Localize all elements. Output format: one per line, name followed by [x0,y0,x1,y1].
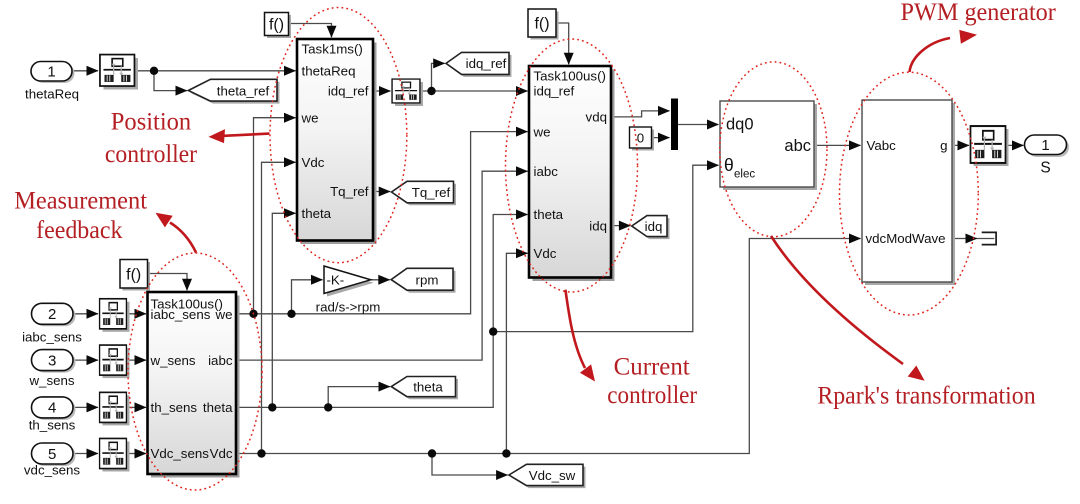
gain -K- rad/s to rpm [316,266,381,315]
RED ANNOTATIONS [128,8,978,491]
svg-text:2: 2 [48,306,56,323]
wire PWM g to RT3 [952,144,969,146]
wire RT2 to current controller idq_ref [420,90,528,92]
svg-text:idq_ref: idq_ref [534,84,575,99]
svg-text:rpm: rpm [416,272,439,287]
wire branch to theta_ref tag [154,71,187,91]
arrow to pwm generator text [910,38,951,72]
svg-text:theta: theta [413,379,443,394]
svg-text:w_sens: w_sens [150,353,196,368]
wire Vdc to Task1ms Vdc [262,162,296,453]
wire port4 to RT6 [73,406,98,408]
svg-text:-K-: -K- [327,273,345,288]
wire we to Task1ms we [254,118,296,314]
wire iabc feedback to current controller [236,171,528,360]
wire we feedback to current controller [236,132,528,314]
ellipse position controller [270,8,407,263]
svg-text:we: we [301,110,319,125]
arrow to rpark transformation text [771,236,903,364]
constant 0 [630,127,655,151]
wire theta feedback to current controller [236,215,528,408]
svg-text:idq_ref: idq_ref [328,84,369,99]
svg-text:we: we [215,307,233,322]
ellipse measurement feedback [128,253,262,490]
inport 1 thetaReq [25,62,79,102]
wire RT6 to measurement th_sens [127,406,147,408]
function-call subsystem Task1ms (position controller) [297,39,377,244]
wire RT4 to measurement iabc_sens [127,313,147,315]
svg-text:iabc_sens: iabc_sens [151,307,211,322]
svg-text:theta: theta [534,207,564,222]
wire current controller idq to tag [611,225,630,227]
svg-text:Vabc: Vabc [867,138,897,153]
goto tag idq [632,216,670,240]
goto tag theta [391,377,458,400]
svg-text:3: 3 [48,352,56,369]
wire gain to rpm tag [371,279,390,281]
svg-text:f(): f() [269,17,284,34]
svg-text:Tq_ref: Tq_ref [330,184,369,199]
wire port1 to RT1 [73,70,99,72]
svg-text:abc: abc [784,137,811,155]
wire branch to idq_ref tag [432,63,445,91]
wire f2 to current controller trigger [556,23,569,64]
ellipse rpark transformation [720,62,827,237]
svg-text:Vdc: Vdc [534,246,557,261]
svg-text:g: g [940,138,947,153]
svg-text:PWM generator: PWM generator [901,0,1057,26]
svg-text:th_sens: th_sens [29,418,76,433]
inport 4 th_sens [29,397,76,433]
goto tag idq_ref [446,52,512,77]
svg-text:S: S [1040,160,1050,177]
function-call generator f3 [120,260,150,291]
wire Task1ms idq_ref to RT2 [373,90,391,92]
wire RT7 to measurement Vdc_sens [127,453,147,455]
wire RT3 to outport S [1006,144,1024,146]
svg-text:theta_ref: theta_ref [217,83,270,98]
rate transition RT1 [100,55,138,90]
wire Vdc feedback to PWM vdcModWave [236,239,861,454]
outport 1 S [1025,135,1070,177]
wire RT5 to measurement w_sens [127,359,147,361]
inport 2 iabc_sens [22,303,82,344]
svg-text:Vdc_sens: Vdc_sens [151,446,210,461]
svg-text:we: we [533,124,551,139]
wire mux to dq0 block [678,124,719,126]
svg-text:controller: controller [607,382,697,409]
svg-text:theta: theta [203,400,233,415]
svg-text:vdq: vdq [586,110,607,125]
wire theta to Task1ms theta [272,213,295,407]
wire port5 to RT7 [73,453,98,455]
svg-text:Rpark's transformation: Rpark's transformation [817,383,1036,410]
wire f3 to measurement trigger [148,274,188,291]
rate transition RT7 [100,438,130,471]
goto tag Vdc_sw [509,464,586,488]
inverse park transformation block dq0-abc [720,101,817,190]
svg-text:θ: θ [724,155,734,175]
svg-text:thetaReq: thetaReq [302,64,356,79]
svg-text:idq: idq [645,219,663,234]
wire Vdc branch to Vdc_sw tag [432,454,508,476]
goto tag Tq_ref [392,181,457,205]
wire port2 to RT4 [73,313,98,315]
svg-text:idq_ref: idq_ref [466,56,507,71]
svg-text:1: 1 [47,63,55,80]
wire constant 0 to mux [652,137,670,139]
wire f1 to Task1ms trigger [289,24,332,38]
svg-text:th_sens: th_sens [151,400,198,415]
svg-text:controller: controller [105,141,198,168]
svg-text:elec: elec [734,169,755,181]
ellipse pwm generator [840,72,979,315]
wire we branch to gain [292,280,323,314]
goto tag rpm [391,268,455,292]
svg-text:Position: Position [111,108,192,135]
svg-text:f(): f() [126,267,141,284]
rate transition RT4 [100,299,130,332]
svg-text:Vdc: Vdc [302,155,325,170]
svg-text:thetaReq: thetaReq [25,87,79,102]
svg-text:iabc: iabc [208,353,233,368]
svg-text:0: 0 [637,130,644,145]
svg-text:Task100us(): Task100us() [534,69,606,84]
wire vdcModWave to terminator [952,238,977,240]
svg-text:Measurement: Measurement [14,187,147,214]
svg-text:w_sens: w_sens [28,373,74,388]
svg-text:Current: Current [614,353,690,380]
rate transition RT5 [100,345,130,378]
inport 3 w_sens [28,350,75,388]
svg-text:vdc_sens: vdc_sens [24,463,81,478]
wire vdq to mux [611,111,670,117]
svg-text:feedback: feedback [36,217,123,244]
svg-text:1: 1 [1041,137,1049,154]
rate transition RT2 [392,79,423,106]
svg-text:iabc_sens: iabc_sens [22,330,82,345]
function-call generator f1 [265,13,292,39]
wire theta branch to Rpark theta_elec [493,165,718,331]
function-call subsystem Task100us (current controller) [529,66,615,281]
svg-text:theta: theta [302,206,332,221]
wire abc to PWM Vabc [814,144,861,146]
arrow to measurement feedback text [170,223,196,253]
wire Vdc branch to current controller Vdc [506,253,527,453]
wire port3 to RT5 [73,359,98,361]
wire theta branch to theta tag [328,387,390,408]
arrow to current controller text [565,290,585,368]
inport 5 vdc_sens [24,443,81,478]
svg-text:iabc: iabc [534,164,559,179]
arrow to position controller text [224,134,270,136]
svg-text:vdcModWave: vdcModWave [866,231,946,246]
PWM generator block [862,100,955,285]
function-call generator f2 [528,9,559,40]
svg-text:rad/s->rpm: rad/s->rpm [316,300,381,315]
svg-text:Vdc_sw: Vdc_sw [529,468,576,483]
svg-text:Vdc: Vdc [210,446,233,461]
svg-text:Tq_ref: Tq_ref [412,185,451,200]
svg-text:Task1ms(): Task1ms() [302,42,363,57]
svg-text:5: 5 [48,446,56,463]
mux [671,99,678,151]
svg-text:4: 4 [48,400,56,417]
rate transition RT6 [100,392,130,425]
terminator [982,232,996,244]
ellipse current controller [506,39,638,292]
function-call subsystem Task100us (measurement feedback) [148,292,240,478]
svg-text:idq: idq [589,218,607,233]
wire Task1ms Tq_ref to tag [373,191,390,193]
wire RT1 to Task1ms thetaReq [135,70,296,72]
goto tag theta_ref [188,79,279,103]
svg-text:f(): f() [534,16,549,33]
svg-text:dq0: dq0 [726,116,754,134]
rate transition RT3 [970,126,1008,166]
